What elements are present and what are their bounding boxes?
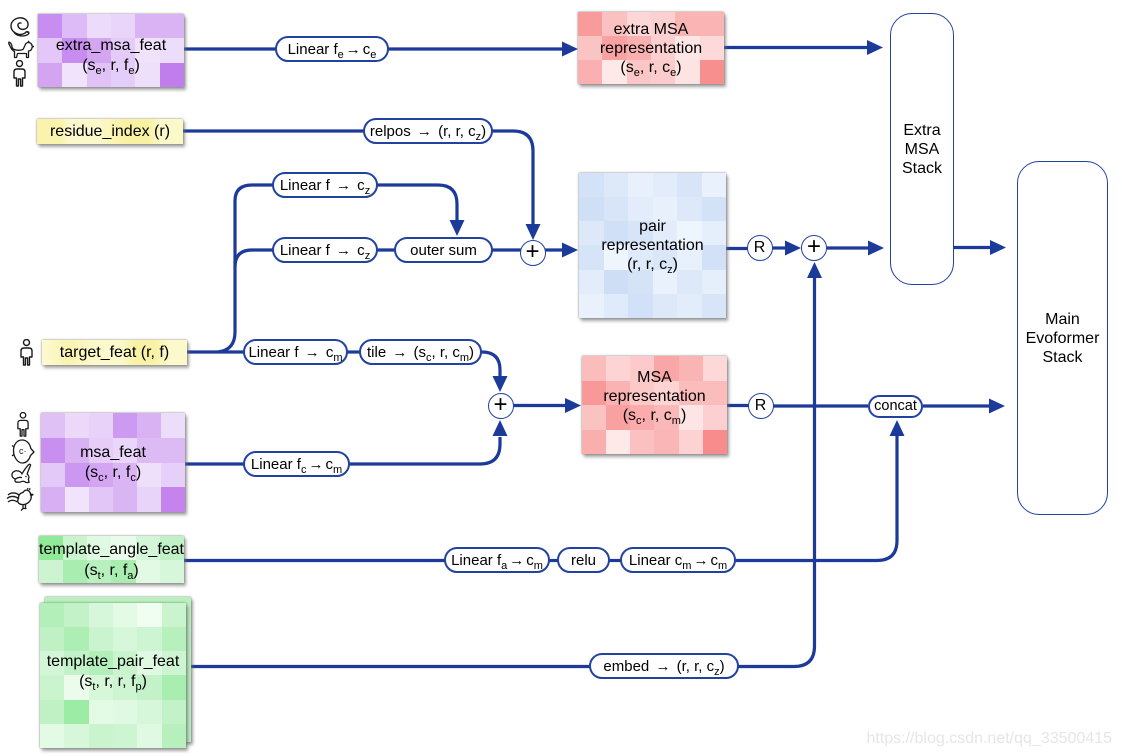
box residue_index xyxy=(37,119,183,144)
wire MSA representation to R2 xyxy=(727,404,749,407)
icon rabbit xyxy=(9,463,36,487)
label pair representation xyxy=(579,173,726,318)
wire branch to lower Linear f-cz xyxy=(235,250,274,267)
watermark xyxy=(866,730,1112,748)
label target_feat xyxy=(42,340,187,365)
wire embed up to plus2 (arrow up) xyxy=(737,278,815,667)
wire Linear f-cm to tile xyxy=(347,350,361,353)
pill outer sum xyxy=(394,237,493,263)
wire relu to Linear cm-cm xyxy=(608,559,622,562)
icon rooster xyxy=(6,485,37,512)
wire plus1 to pair representation (arrow) xyxy=(545,248,563,251)
wire R1 to plus2 (arrow) xyxy=(772,246,786,249)
box target_feat xyxy=(42,340,187,365)
pill Linear fc-cm xyxy=(243,451,350,477)
wire target_feat to Linear f-cm xyxy=(187,350,246,353)
box MSA representation checkered xyxy=(582,356,727,454)
box template_pair_feat checkered xyxy=(40,603,186,748)
box template_pair_feat back layer xyxy=(45,597,191,742)
icon dog xyxy=(7,40,35,61)
box template_angle_feat checkered xyxy=(39,536,184,583)
node plus3 xyxy=(488,393,514,419)
label extra_msa_feat xyxy=(38,14,184,87)
icon person1 xyxy=(11,60,28,88)
wire msa_feat to Linear fc-cm xyxy=(185,462,246,465)
wire Linear fa-cm to relu xyxy=(548,559,559,562)
pill tile xyxy=(359,339,482,365)
node plus1 xyxy=(520,240,546,266)
wire Linear f-cz top to outer sum (arrow down) xyxy=(376,185,457,220)
label template_angle_feat xyxy=(39,536,184,583)
wire tile down to plus3 (arrow) xyxy=(480,352,500,377)
pill Linear f-cz lower xyxy=(272,237,378,263)
icon fish xyxy=(11,438,35,465)
wire Linear fe-ce to extra MSA representation (arrow) xyxy=(388,47,563,50)
pill relpos xyxy=(363,118,493,144)
wire concat to Main Evoformer Stack (arrow) xyxy=(923,404,990,407)
node plus2 xyxy=(801,235,827,261)
pill Linear fe-ce xyxy=(275,36,389,62)
pill relu xyxy=(557,547,610,573)
wire plus3 to MSA representation (arrow) xyxy=(513,404,566,407)
node R1 xyxy=(747,235,773,261)
wire template_pair_feat to embed xyxy=(186,665,591,668)
icon snake xyxy=(8,16,33,37)
label residue_index xyxy=(37,119,183,144)
wire Linear f-cz lower to outer sum xyxy=(375,248,397,251)
wire extra MSA representation to Extra MSA Stack (arrow) xyxy=(724,46,868,49)
label MSA representation xyxy=(582,356,727,454)
icon person2 xyxy=(18,339,35,367)
wire target_feat branch up to Linear f-cz pills xyxy=(218,185,274,352)
wire relpos down to plus1 (arrow) xyxy=(491,131,533,225)
label template_pair_feat xyxy=(40,603,186,748)
wire template_angle_feat to Linear fa-cm xyxy=(184,559,446,562)
stack Extra MSA Stack xyxy=(890,13,954,285)
pill Linear cm-cm xyxy=(620,547,736,573)
svg-text:c·: c· xyxy=(19,446,27,456)
icon person3 xyxy=(15,412,31,438)
pill Linear f-cm xyxy=(243,339,348,365)
wire extra_msa_feat to Linear fe-ce xyxy=(184,47,277,50)
box extra MSA representation checkered xyxy=(578,12,724,84)
label msa_feat xyxy=(41,413,185,512)
box msa_feat checkered xyxy=(41,413,185,512)
box pair representation checkered xyxy=(579,173,726,318)
wire outer sum to plus1 xyxy=(491,248,521,251)
box extra_msa_feat checkered xyxy=(38,14,184,87)
wire residue_index to relpos xyxy=(183,129,365,132)
node R2 xyxy=(748,393,774,419)
wire plus2 to Extra MSA Stack (arrow) xyxy=(827,246,869,249)
pill concat xyxy=(868,395,923,418)
pill Linear f-cz top xyxy=(272,172,378,198)
wire Linear cm-cm up to concat (arrow up) xyxy=(734,436,897,561)
wire R2 to concat xyxy=(773,404,868,407)
stack Main Evoformer Stack xyxy=(1017,161,1108,515)
wire Extra MSA Stack to Main Evoformer Stack (arrow) xyxy=(954,246,991,249)
wire Linear fc-cm up to plus3 (arrow up) xyxy=(349,437,500,464)
pill Linear fa-cm xyxy=(444,547,550,573)
label extra MSA representation xyxy=(578,12,724,84)
wire pair representation to R1 xyxy=(726,247,748,250)
pill embed xyxy=(589,653,739,679)
